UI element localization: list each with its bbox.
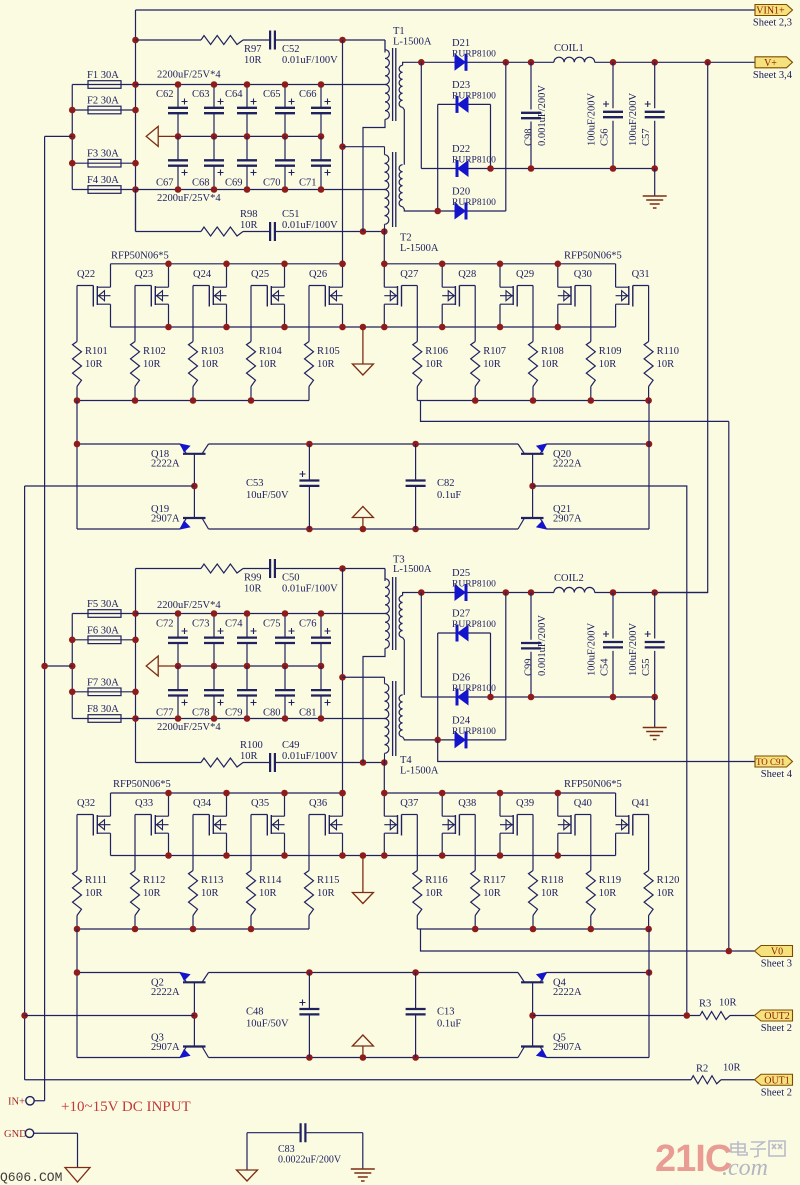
svg-text:C72: C72 [156, 619, 174, 630]
svg-text:10R: 10R [201, 359, 219, 370]
svg-text:Q24: Q24 [193, 269, 212, 280]
resistor R98 [201, 227, 243, 236]
resistor R114 [247, 871, 283, 916]
svg-text:Q35: Q35 [251, 798, 269, 809]
svg-text:RFP50N06*5: RFP50N06*5 [564, 779, 622, 790]
wire resistor lead [648, 387, 650, 401]
junction [165, 261, 172, 268]
wire D21 cathode to V+ node [468, 61, 756, 63]
svg-text:C70: C70 [263, 178, 281, 189]
junction [132, 637, 139, 644]
junction [132, 689, 139, 696]
junction [528, 694, 535, 701]
svg-text:Q34: Q34 [193, 798, 212, 809]
wire resistor lead [192, 916, 194, 930]
transistor Q32 [77, 793, 111, 856]
wire gate Q27 [416, 286, 418, 342]
wire resistor lead [532, 916, 534, 930]
svg-text:Q36: Q36 [309, 798, 327, 809]
wire gate Q39 [532, 815, 534, 871]
svg-text:R3: R3 [699, 999, 711, 1010]
wire Q21 emitter row [547, 528, 650, 530]
wire driver top rail [209, 443, 519, 445]
svg-text:0.0022uF/200V: 0.0022uF/200V [278, 1155, 342, 1166]
junction [282, 715, 289, 722]
svg-text:TO C91: TO C91 [756, 757, 785, 767]
svg-text:RURP8100: RURP8100 [452, 156, 496, 166]
svg-text:10R: 10R [259, 359, 277, 370]
wire gate Q23 [134, 286, 136, 342]
transistor Q31 [616, 264, 650, 327]
junction [497, 324, 504, 331]
wire fuse left bus [71, 85, 73, 190]
junction [360, 852, 367, 859]
transistor Q40 [558, 793, 592, 856]
capacitor C51 [270, 222, 275, 241]
wire gate Q25 [250, 286, 252, 342]
svg-text:Q33: Q33 [135, 798, 153, 809]
svg-text:Q38: Q38 [458, 798, 476, 809]
transistor Q3 [151, 1033, 209, 1059]
svg-text:C62: C62 [156, 89, 174, 100]
wire R2 to OUT1 [721, 1079, 755, 1081]
transistor Q25 [251, 264, 285, 327]
svg-text:C64: C64 [225, 89, 243, 100]
svg-text:C65: C65 [263, 89, 281, 100]
svg-text:C75: C75 [263, 619, 281, 630]
junction [646, 969, 653, 976]
svg-text:2907A: 2907A [151, 514, 180, 525]
svg-text:100uF/200V: 100uF/200V [587, 92, 598, 146]
diode D26 [457, 689, 469, 706]
svg-text:D25: D25 [452, 568, 470, 579]
junction [244, 610, 251, 617]
ground arrow C83 [237, 1170, 258, 1181]
svg-text:T1: T1 [393, 26, 405, 37]
junction [528, 59, 535, 66]
resistor R113 [189, 871, 224, 916]
junction [41, 663, 48, 670]
sheet connector OUT2 [755, 1010, 793, 1021]
junction [503, 59, 510, 66]
junction [497, 790, 504, 797]
svg-text:Sheet 3: Sheet 3 [761, 959, 792, 970]
svg-text:Q37: Q37 [400, 798, 418, 809]
junction [74, 926, 81, 933]
transformer T2 [385, 147, 439, 254]
wire resistor lead [648, 916, 650, 930]
resistor R112 [131, 871, 166, 916]
wire gate Q40 [590, 815, 592, 871]
junction [69, 107, 76, 114]
svg-text:L-1500A: L-1500A [393, 37, 432, 48]
transistor Q36 [309, 793, 343, 856]
wire R98 row [135, 190, 137, 232]
junction [74, 969, 81, 976]
wire T4 bottom to Q37 drain [383, 763, 385, 794]
transistor Q29 [500, 264, 534, 327]
svg-text:D21: D21 [452, 38, 470, 49]
wire gate Q38 [474, 815, 476, 871]
svg-text:Q25: Q25 [251, 269, 269, 280]
svg-text:Q29: Q29 [516, 269, 534, 280]
diode D25 [455, 584, 467, 601]
terminal IN+ [8, 1097, 45, 1108]
transistor Q35 [251, 793, 285, 856]
junction [529, 483, 536, 490]
transistor Q33 [135, 793, 169, 856]
sheet connector VIN1+ [755, 5, 793, 16]
diode D24 [455, 731, 467, 748]
svg-text:Sheet 2: Sheet 2 [761, 1087, 792, 1098]
svg-text:10R: 10R [244, 584, 262, 595]
svg-text:L-1500A: L-1500A [400, 243, 439, 254]
wire D23 bracket [438, 104, 491, 211]
wire Q2 emitter row [77, 972, 180, 974]
wire gate Q35 [250, 815, 252, 871]
svg-text:C57: C57 [641, 128, 652, 146]
wire gate Q34 [192, 815, 194, 871]
inductor COIL1 [554, 57, 595, 62]
transistor Q4 [518, 972, 582, 998]
watermark dianziwang glyphs [731, 1141, 785, 1157]
junction [439, 790, 446, 797]
wire drive input row [25, 485, 195, 487]
wire D22 row / 0V bus [421, 168, 654, 170]
junction [191, 1012, 198, 1019]
resistor R100 [201, 758, 243, 767]
svg-text:0.01uF/100V: 0.01uF/100V [282, 55, 338, 66]
wire VIN1+ net top [136, 9, 756, 11]
transistor Q5 [518, 1033, 582, 1059]
svg-text:0.01uF/100V: 0.01uF/100V [282, 220, 338, 231]
svg-text:F6 30A: F6 30A [87, 625, 119, 636]
junction [439, 261, 446, 268]
diode D22 [457, 160, 469, 177]
svg-text:0.001uF/200V: 0.001uF/200V [537, 85, 548, 146]
wire emitter vertical right bottom [648, 929, 650, 1058]
arrow driver mid bottom [362, 1046, 364, 1058]
junction [132, 715, 139, 722]
resistor R104 [247, 342, 283, 387]
junction [487, 694, 494, 701]
svg-text:R114: R114 [259, 875, 282, 886]
svg-text:D26: D26 [452, 673, 470, 684]
svg-text:10R: 10R [599, 359, 617, 370]
wire gate Q41 [648, 815, 650, 871]
resistor R101 [73, 342, 108, 387]
diode D27 [438, 609, 496, 642]
transistor Q20 [518, 443, 582, 469]
capacitor C81 [299, 666, 331, 719]
wire base rail left [24, 486, 26, 1080]
svg-text:10R: 10R [425, 888, 443, 899]
svg-text:R117: R117 [483, 875, 505, 886]
svg-text:Q22: Q22 [77, 269, 95, 280]
svg-text:10R: 10R [723, 1063, 741, 1074]
fuse F8 [72, 718, 135, 720]
svg-text:C56: C56 [600, 128, 611, 146]
wire driver base vertical right [532, 454, 534, 518]
svg-text:21IC: 21IC [655, 1138, 732, 1180]
sheet connector TO C91 [755, 756, 793, 767]
junction [646, 441, 653, 448]
svg-text:RFP50N06*5: RFP50N06*5 [111, 251, 169, 262]
svg-text:Q28: Q28 [458, 269, 476, 280]
junction [306, 1054, 313, 1061]
junction [74, 441, 81, 448]
transistor Q18 [151, 443, 209, 469]
wire D24 row [438, 593, 506, 740]
wire resistor lead [76, 387, 78, 401]
wire cap bank bottom bus bottom [136, 718, 386, 720]
svg-text:RURP8100: RURP8100 [452, 198, 496, 208]
capacitor C73 [192, 614, 224, 667]
wire driver base vertical left bottom [193, 982, 195, 1046]
svg-text:R108: R108 [541, 346, 564, 357]
wire resistor lead [416, 916, 418, 930]
junction [211, 186, 218, 193]
capacitor C65 [263, 85, 295, 137]
svg-text:2222A: 2222A [553, 459, 582, 470]
junction [487, 165, 494, 172]
junction [175, 186, 182, 193]
junction [360, 228, 367, 235]
svg-text:C99: C99 [524, 658, 535, 676]
wire gate bus group2 [417, 400, 648, 402]
svg-text:10R: 10R [657, 888, 675, 899]
wire +12V bus vertical [135, 10, 137, 232]
svg-text:Q39: Q39 [516, 798, 534, 809]
svg-text:C81: C81 [299, 708, 317, 719]
transistor Q2 [151, 972, 209, 998]
svg-text:10R: 10R [240, 751, 258, 762]
junction [381, 324, 388, 331]
capacitor C49 [270, 753, 275, 772]
wire resistor lead [134, 387, 136, 401]
svg-text:10R: 10R [259, 888, 277, 899]
svg-text:C71: C71 [299, 178, 317, 189]
ground bottom filter [654, 697, 656, 728]
svg-text:R103: R103 [201, 346, 224, 357]
wire drain rail group3 [111, 792, 343, 794]
wire cap bank top bus bottom [136, 613, 386, 615]
svg-text:2907A: 2907A [553, 514, 582, 525]
sheet connector OUT1 [755, 1074, 793, 1085]
junction [165, 790, 172, 797]
resistor R117 [471, 871, 506, 916]
sheet connector V+ [755, 57, 793, 68]
junction [726, 948, 733, 955]
wire gate Q37 [416, 815, 418, 871]
terminal GND [4, 1129, 78, 1168]
transistor Q24 [193, 264, 227, 327]
svg-text:V+: V+ [764, 58, 777, 69]
wire drain rail group1 [111, 263, 343, 265]
junction [418, 589, 425, 596]
capacitor C13 [406, 973, 462, 1058]
junction [339, 143, 346, 150]
svg-text:10R: 10R [201, 888, 219, 899]
junction [381, 852, 388, 859]
wire Q18 emitter row [77, 443, 180, 445]
transistor Q22 [77, 264, 111, 327]
capacitor C64 [225, 85, 257, 137]
junction [555, 324, 562, 331]
wire gate Q22 [76, 286, 78, 342]
junction [360, 759, 367, 766]
svg-text:RURP8100: RURP8100 [452, 50, 496, 60]
capacitor C50 [270, 559, 275, 578]
svg-text:GND: GND [4, 1129, 27, 1140]
wire D21 anode [406, 61, 455, 63]
junction [555, 261, 562, 268]
junction [472, 397, 479, 404]
junction [318, 715, 325, 722]
wire resistor lead [590, 387, 592, 401]
svg-text:RURP8100: RURP8100 [452, 580, 496, 590]
wire V+ rail to bottom rectifier [655, 62, 708, 592]
svg-text:OUT2: OUT2 [764, 1011, 790, 1022]
junction [132, 610, 139, 617]
junction [318, 81, 325, 88]
resistor R103 [189, 342, 224, 387]
junction [381, 261, 388, 268]
svg-text:10R: 10R [85, 888, 103, 899]
wire TO C91 [438, 740, 755, 762]
wire T2 top lead [343, 146, 385, 148]
junction [651, 165, 658, 172]
wire bridge left vertical [420, 62, 422, 168]
wire OUT1 row [25, 1079, 691, 1081]
capacitor C54 [587, 593, 624, 698]
capacitor C78 [192, 666, 224, 719]
diode D21 [455, 54, 467, 71]
svg-text:C82: C82 [437, 478, 455, 489]
wire resistor lead [474, 916, 476, 930]
wire resistor lead [532, 387, 534, 401]
capacitor C83 [247, 1123, 363, 1165]
junction [339, 674, 346, 681]
wire D26 row / 0V bus bottom [421, 696, 654, 698]
svg-text:C49: C49 [282, 740, 300, 751]
wire T3 bottom lead [363, 648, 385, 762]
transistor Q27 [384, 264, 418, 327]
capacitor C55 [628, 593, 665, 698]
svg-text:C51: C51 [282, 209, 300, 220]
wire resistor lead [250, 916, 252, 930]
junction [555, 790, 562, 797]
svg-text:C80: C80 [263, 708, 281, 719]
junction [175, 715, 182, 722]
junction [439, 324, 446, 331]
fuse F5 [72, 613, 135, 615]
svg-text:R101: R101 [85, 346, 108, 357]
capacitor C48 [246, 973, 319, 1058]
transformer T3 [385, 555, 432, 695]
junction [132, 186, 139, 193]
svg-text:C48: C48 [246, 1007, 264, 1018]
wire emitter vertical right [648, 401, 650, 530]
junction [306, 526, 313, 533]
svg-text:C83: C83 [278, 1144, 295, 1155]
svg-text:L-1500A: L-1500A [393, 564, 432, 575]
wire gate Q30 [590, 286, 592, 342]
svg-text:COIL2: COIL2 [554, 573, 584, 584]
svg-text:Sheet 2,3: Sheet 2,3 [753, 18, 792, 29]
fuse F2 [72, 109, 135, 111]
wire cap bank top bus [136, 84, 386, 86]
svg-text:C79: C79 [225, 708, 243, 719]
wire gate Q31 [648, 286, 650, 342]
junction [339, 261, 346, 268]
wire driver base vertical left [193, 454, 195, 518]
capacitor C80 [263, 666, 295, 719]
svg-text:D20: D20 [452, 187, 470, 198]
wire Q5 emitter row [547, 1057, 650, 1059]
fuse F4 [72, 189, 135, 191]
svg-text:C98: C98 [524, 128, 535, 146]
svg-text:10R: 10R [317, 888, 335, 899]
sheet connector V0 [755, 946, 793, 957]
svg-text:+10~15V DC INPUT: +10~15V DC INPUT [61, 1099, 191, 1115]
wire resistor lead [308, 387, 310, 401]
wire driver left vertical bottom [76, 929, 78, 1058]
svg-text:F2 30A: F2 30A [87, 96, 119, 107]
svg-text:0.001uF/200V: 0.001uF/200V [537, 615, 548, 676]
junction [339, 37, 346, 44]
svg-text:RURP8100: RURP8100 [452, 92, 496, 102]
capacitor C99 [521, 593, 548, 698]
wire resistor lead [416, 387, 418, 401]
capacitor C53 [246, 444, 319, 529]
junction [610, 694, 617, 701]
diode D23 [438, 80, 496, 113]
wire resistor lead [474, 387, 476, 401]
svg-text:R112: R112 [143, 875, 165, 886]
wire resistor lead [308, 916, 310, 930]
resistor R111 [73, 871, 107, 916]
resistor R115 [305, 871, 340, 916]
capacitor C67 [156, 136, 188, 189]
svg-text:R97: R97 [244, 44, 262, 55]
junction [651, 694, 658, 701]
svg-text:2907A: 2907A [151, 1042, 180, 1053]
capacitor C76 [299, 614, 331, 667]
inductor COIL2 [554, 587, 595, 592]
svg-text:10R: 10R [483, 888, 501, 899]
svg-text:10R: 10R [85, 359, 103, 370]
svg-text:10R: 10R [244, 55, 262, 66]
junction [434, 737, 441, 744]
junction [339, 261, 346, 268]
wire T4 top lead [343, 676, 385, 678]
wire mid bus bottom [178, 665, 321, 667]
transistor Q26 [309, 264, 343, 327]
junction [555, 852, 562, 859]
transistor Q23 [135, 264, 169, 327]
svg-text:10uF/50V: 10uF/50V [246, 1019, 289, 1030]
wire Q20 emitter row [547, 443, 650, 445]
capacitor C69 [225, 136, 257, 189]
wire input stub bottom [45, 665, 73, 667]
svg-text:OUT1: OUT1 [764, 1075, 790, 1086]
svg-text:Q606.COM: Q606.COM [0, 1170, 62, 1185]
svg-text:100uF/200V: 100uF/200V [628, 622, 639, 676]
arrow mid bus bottom [146, 656, 158, 676]
wire mid bus [178, 135, 321, 137]
capacitor C70 [263, 136, 295, 189]
